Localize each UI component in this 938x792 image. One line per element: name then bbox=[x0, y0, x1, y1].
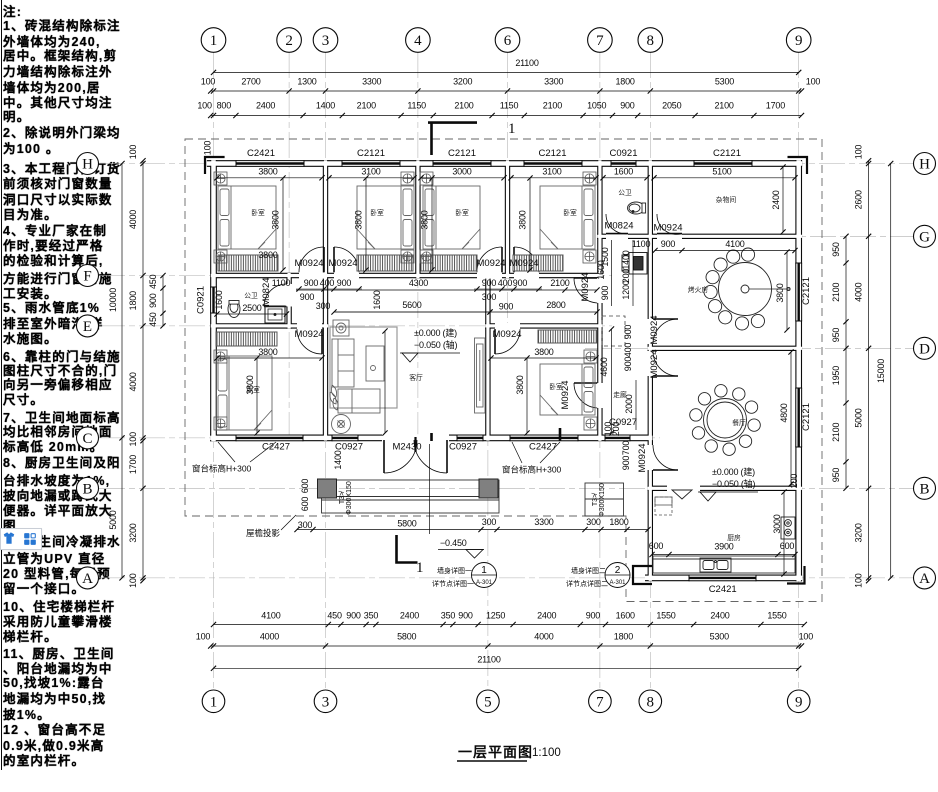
svg-text:3800: 3800 bbox=[775, 283, 785, 302]
svg-text:M2430: M2430 bbox=[392, 442, 421, 453]
svg-text:900: 900 bbox=[458, 611, 473, 621]
nightstand bedroom6 top bbox=[584, 350, 597, 363]
svg-text:3100: 3100 bbox=[361, 167, 380, 177]
living room chaise bed bbox=[338, 389, 380, 413]
wall axis 3 bbox=[323, 160, 328, 440]
svg-text:4000: 4000 bbox=[260, 632, 279, 642]
door opening M0924 bedroom1 bbox=[299, 272, 324, 278]
svg-text:墙身详图二: 墙身详图二 bbox=[571, 566, 606, 575]
svg-text:M0924: M0924 bbox=[294, 329, 323, 340]
svg-text:2700: 2700 bbox=[241, 77, 260, 87]
corridor west wall (axis 7) bbox=[597, 160, 602, 441]
svg-text:900: 900 bbox=[661, 239, 676, 249]
svg-text:100: 100 bbox=[196, 632, 211, 642]
grid bubble 1 bottom bbox=[202, 690, 225, 713]
grid bubble B left bbox=[77, 477, 99, 499]
grid bubble 9 bottom bbox=[787, 690, 810, 713]
svg-text:100: 100 bbox=[203, 141, 213, 156]
door opening M0824 bath2 bbox=[286, 284, 292, 307]
svg-text:3800: 3800 bbox=[258, 250, 277, 260]
grid bubble 9 top bbox=[786, 28, 811, 53]
svg-text:5000: 5000 bbox=[108, 510, 118, 529]
svg-text:C2421: C2421 bbox=[709, 584, 737, 595]
svg-text:卧室: 卧室 bbox=[370, 208, 384, 217]
svg-text:2400: 2400 bbox=[771, 190, 781, 209]
kitchen entry opening bbox=[667, 485, 700, 491]
wardrobe bedroom2 bbox=[357, 255, 413, 271]
svg-text:450: 450 bbox=[148, 312, 158, 327]
svg-text:3800: 3800 bbox=[518, 210, 528, 229]
grid bubble 1 top bbox=[201, 28, 226, 53]
svg-text:2600: 2600 bbox=[854, 190, 864, 209]
svg-text:10000: 10000 bbox=[108, 288, 118, 312]
grid bubble 3 bottom bbox=[314, 690, 337, 713]
right main dimension chain bbox=[854, 145, 872, 588]
svg-text:1550: 1550 bbox=[656, 611, 675, 621]
left sub-dimensions 450/900/450 bbox=[148, 273, 166, 329]
grid bubble 2 top bbox=[277, 28, 302, 53]
svg-text:1: 1 bbox=[481, 565, 487, 576]
svg-text:C2121: C2121 bbox=[801, 403, 812, 431]
door leaf+swing M0924 dining south bbox=[653, 469, 678, 471]
left main dimension chain bbox=[128, 145, 146, 588]
left overall dimensions bbox=[108, 161, 125, 581]
svg-text:窗台标高H+300: 窗台标高H+300 bbox=[192, 464, 252, 474]
door leaf+swing M0924 bedroom5 bbox=[321, 329, 323, 354]
window C2421 bedroom1 bbox=[236, 160, 304, 167]
svg-text:1150: 1150 bbox=[500, 101, 519, 111]
door leaf+swing M0924 bedroom3 bbox=[501, 247, 503, 272]
svg-text:1600: 1600 bbox=[372, 290, 382, 309]
dining round table with chairs bbox=[690, 385, 761, 456]
kitchen stove bbox=[781, 517, 795, 539]
svg-text:3800: 3800 bbox=[534, 347, 553, 357]
svg-text:A: A bbox=[919, 571, 930, 587]
section mark 1 top bbox=[428, 123, 477, 155]
corner pier top-right bbox=[788, 157, 808, 174]
svg-text:900: 900 bbox=[620, 101, 635, 111]
svg-text:M0924: M0924 bbox=[580, 272, 591, 301]
svg-text:1600: 1600 bbox=[616, 611, 635, 621]
door opening M0924 bedroom4 bbox=[514, 272, 539, 278]
svg-text:C0927: C0927 bbox=[449, 442, 477, 453]
svg-text:2000: 2000 bbox=[624, 394, 634, 413]
door leaf+swing M0924 bedroom4 bbox=[513, 247, 515, 272]
wall axis G (bottom of WC and storage) bbox=[597, 234, 802, 239]
main entrance double door M2430 bbox=[384, 437, 447, 473]
svg-text:客厅: 客厅 bbox=[409, 373, 423, 382]
svg-text:屋檐投影: 屋檐投影 bbox=[246, 528, 281, 538]
svg-text:2050: 2050 bbox=[662, 101, 681, 111]
svg-text:900: 900 bbox=[148, 293, 158, 308]
svg-text:1550: 1550 bbox=[767, 611, 786, 621]
svg-text:5800: 5800 bbox=[397, 632, 416, 642]
wall axis 5 (living/BR6 divider) bbox=[485, 273, 490, 441]
grid bubble G right bbox=[914, 225, 936, 247]
wall axis 4 (BR2/BR3 divider) bbox=[415, 160, 420, 278]
nightstand bedroom2 bottom bbox=[401, 250, 414, 263]
door opening M0824 WC bbox=[606, 233, 628, 239]
svg-text:200: 200 bbox=[611, 422, 621, 437]
svg-text:3800: 3800 bbox=[515, 375, 525, 394]
svg-text:M0924: M0924 bbox=[328, 258, 357, 269]
svg-text:1950: 1950 bbox=[831, 366, 841, 385]
svg-text:Φ300X150: Φ300X150 bbox=[346, 481, 353, 515]
svg-text:900: 900 bbox=[600, 286, 610, 301]
svg-text:1: 1 bbox=[508, 121, 516, 137]
svg-text:2: 2 bbox=[285, 33, 293, 49]
svg-text:M0924: M0924 bbox=[653, 223, 682, 234]
nightstand bedroom5 top bbox=[214, 350, 227, 363]
porch dimension line bbox=[297, 529, 648, 531]
svg-text:3800: 3800 bbox=[271, 210, 281, 229]
svg-text:2100: 2100 bbox=[714, 101, 733, 111]
window C2121 storage bbox=[694, 160, 752, 167]
svg-text:900: 900 bbox=[482, 278, 497, 288]
grid bubble D right bbox=[914, 337, 936, 359]
svg-text:700: 700 bbox=[621, 441, 631, 456]
window C2121 firehouse bbox=[795, 263, 802, 321]
door leaf+swing M0924 corridor bbox=[574, 277, 597, 279]
svg-text:公卫: 公卫 bbox=[244, 292, 258, 300]
wall detail reference 1 bbox=[472, 563, 497, 588]
wall axis F (bedroom south partition) bbox=[211, 273, 603, 278]
TV cabinet on axis5 wall bbox=[475, 338, 486, 413]
svg-text:1400: 1400 bbox=[316, 101, 335, 111]
svg-text:5100: 5100 bbox=[712, 167, 731, 177]
svg-text:H: H bbox=[919, 157, 930, 173]
wall axis 2 (bath partition) bbox=[286, 273, 291, 329]
svg-text:B: B bbox=[82, 481, 92, 497]
svg-text:21100: 21100 bbox=[477, 655, 501, 665]
kitchen sink bbox=[700, 558, 731, 572]
grid bubble H right bbox=[914, 153, 936, 175]
window C2121 bedroom3 bbox=[433, 160, 491, 167]
grid bubble E left bbox=[77, 315, 99, 337]
bottom axis spacing dimensions bbox=[196, 632, 813, 649]
kitchen entry step triangle bbox=[672, 490, 692, 499]
svg-text:M0924: M0924 bbox=[294, 258, 323, 269]
svg-text:M0924: M0924 bbox=[649, 315, 660, 344]
svg-text:900: 900 bbox=[623, 357, 633, 372]
svg-text:950: 950 bbox=[831, 468, 841, 483]
svg-text:350: 350 bbox=[364, 611, 379, 621]
kitchen bottom wall (axis A) bbox=[645, 575, 802, 582]
svg-text:4100: 4100 bbox=[261, 611, 280, 621]
door opening M0924 firehouse bbox=[647, 319, 653, 344]
door leaf+swing M0824 WC bbox=[606, 233, 628, 235]
svg-text:5300: 5300 bbox=[710, 632, 729, 642]
svg-text:C2121: C2121 bbox=[801, 277, 812, 305]
window C0921 WC bbox=[611, 160, 636, 167]
svg-text:900: 900 bbox=[621, 456, 631, 471]
svg-text:一层平面图: 一层平面图 bbox=[458, 744, 533, 760]
drawing title bbox=[457, 744, 561, 761]
svg-text:1500: 1500 bbox=[600, 247, 610, 266]
window C0927 living west bbox=[332, 435, 358, 442]
svg-text:900: 900 bbox=[586, 611, 601, 621]
nightstand bedroom3 bottom bbox=[420, 250, 433, 263]
interior room dimension lines bbox=[217, 167, 795, 574]
svg-text:600: 600 bbox=[780, 541, 795, 551]
svg-text:−0.450: −0.450 bbox=[440, 538, 467, 548]
svg-text:1800: 1800 bbox=[614, 632, 633, 642]
kitchen counter along bottom bbox=[653, 556, 795, 573]
svg-text:4000: 4000 bbox=[128, 210, 138, 229]
svg-text:1200: 1200 bbox=[621, 280, 631, 299]
svg-text:100: 100 bbox=[201, 77, 216, 87]
bed bedroom2 bbox=[357, 186, 414, 249]
svg-text:1700: 1700 bbox=[128, 455, 138, 474]
right overall dimension 15000 bbox=[876, 161, 893, 581]
left exterior wall (axis 1) bbox=[210, 160, 217, 441]
svg-text:300: 300 bbox=[298, 520, 313, 530]
grid bubble A right bbox=[914, 567, 936, 589]
svg-text:M0924: M0924 bbox=[509, 258, 538, 269]
living room coffee table bbox=[366, 346, 384, 381]
svg-text:1: 1 bbox=[210, 33, 218, 49]
window C0927 corridor bbox=[605, 435, 630, 442]
svg-text:1: 1 bbox=[210, 694, 218, 710]
washbasin bath2 bbox=[265, 306, 285, 323]
corner pier kitchen bottom-left bbox=[633, 566, 652, 584]
nightstand bedroom6 bottom bbox=[584, 417, 597, 430]
svg-text:100: 100 bbox=[197, 101, 212, 111]
svg-text:2400: 2400 bbox=[400, 611, 419, 621]
grid bubble 6 top bbox=[495, 28, 520, 53]
svg-text:C2121: C2121 bbox=[357, 148, 385, 159]
svg-text:8: 8 bbox=[647, 694, 655, 710]
svg-text:2100: 2100 bbox=[831, 423, 841, 442]
svg-text:900: 900 bbox=[513, 278, 528, 288]
right sub-dimensions bbox=[831, 234, 849, 491]
window C2121 bedroom2 bbox=[342, 160, 400, 167]
svg-text:4800: 4800 bbox=[779, 403, 789, 422]
svg-text:3800: 3800 bbox=[258, 167, 277, 177]
door leaf+swing M0824 bath2 bbox=[264, 306, 286, 308]
grid bubble C left bbox=[77, 427, 99, 449]
svg-text:3900: 3900 bbox=[714, 542, 733, 552]
svg-text:详节点详图二: 详节点详图二 bbox=[566, 579, 608, 588]
door opening M0924 bedroom6 bbox=[495, 323, 520, 329]
svg-text:C: C bbox=[82, 431, 92, 447]
svg-text:餐厅: 餐厅 bbox=[732, 418, 746, 427]
grid bubble A left bbox=[77, 567, 99, 589]
dashboard grid icon (blue) bbox=[23, 532, 37, 546]
wall axis E east segment bbox=[485, 323, 602, 328]
svg-text:8: 8 bbox=[647, 33, 655, 49]
window C2427 bedroom5 bbox=[236, 435, 303, 442]
svg-text:1150: 1150 bbox=[407, 101, 426, 111]
section mark 1 bottom bbox=[397, 535, 418, 563]
wall axis E west segment bbox=[211, 323, 328, 328]
window C2427 bedroom6 bbox=[510, 435, 578, 442]
svg-text:C2121: C2121 bbox=[539, 148, 567, 159]
svg-text:950: 950 bbox=[831, 328, 841, 343]
svg-text:600: 600 bbox=[300, 479, 310, 494]
wardrobe bedroom1 bbox=[218, 255, 278, 271]
svg-text:3800: 3800 bbox=[258, 347, 277, 357]
svg-text:3200: 3200 bbox=[453, 77, 472, 87]
overall bottom dimension 21100 bbox=[211, 655, 801, 671]
kitchen upper cabinet dashed bbox=[655, 497, 672, 515]
svg-text:3: 3 bbox=[322, 33, 330, 49]
svg-text:600: 600 bbox=[300, 497, 310, 512]
svg-text:C0921: C0921 bbox=[196, 286, 207, 314]
svg-text:200: 200 bbox=[789, 474, 799, 489]
svg-text:±0.000 (建): ±0.000 (建) bbox=[712, 466, 755, 477]
svg-text:400: 400 bbox=[498, 278, 513, 288]
interior dimension ticks bbox=[214, 175, 219, 180]
grid bubble 5 bottom bbox=[477, 690, 500, 713]
svg-text:400: 400 bbox=[320, 278, 335, 288]
svg-text:T3≯: T3≯ bbox=[338, 491, 346, 504]
svg-text:5: 5 bbox=[484, 694, 492, 710]
bed bedroom1 bbox=[218, 186, 276, 249]
door leaf+swing M0924 dining bbox=[653, 375, 678, 377]
svg-text:3300: 3300 bbox=[362, 77, 381, 87]
svg-text:杂物间: 杂物间 bbox=[716, 195, 737, 204]
svg-text:公卫: 公卫 bbox=[618, 189, 632, 197]
svg-text:450: 450 bbox=[327, 611, 342, 621]
door opening M0924 storage bbox=[657, 233, 682, 239]
svg-text:2400: 2400 bbox=[537, 611, 556, 621]
nightstand bedroom1 bottom bbox=[214, 250, 227, 263]
door leaf+swing M0924 bedroom1 bbox=[323, 247, 325, 272]
svg-text:1: 1 bbox=[416, 560, 424, 576]
svg-text:D: D bbox=[919, 341, 930, 357]
level marker living room bbox=[400, 327, 460, 362]
svg-text:300: 300 bbox=[316, 301, 331, 311]
door opening M0924 dining bbox=[647, 351, 653, 376]
svg-text:C2121: C2121 bbox=[448, 148, 476, 159]
svg-text:1400: 1400 bbox=[621, 250, 631, 269]
porch column on axis 3 bbox=[318, 479, 337, 498]
general notes text column bbox=[0, 0, 100, 792]
corner pier kitchen bottom-right bbox=[787, 566, 805, 584]
svg-text:卧室: 卧室 bbox=[563, 208, 577, 217]
svg-text:1800: 1800 bbox=[128, 291, 138, 310]
right exterior wall (axis 9) bbox=[795, 160, 802, 581]
living room corner plant table bbox=[333, 320, 349, 336]
svg-text:M0924: M0924 bbox=[476, 258, 505, 269]
svg-text:烤火房: 烤火房 bbox=[688, 285, 709, 294]
svg-text:5600: 5600 bbox=[402, 300, 421, 310]
svg-text:9: 9 bbox=[795, 33, 803, 49]
grid bubble F left bbox=[77, 265, 99, 287]
svg-text:C2427: C2427 bbox=[262, 442, 290, 453]
svg-text:5800: 5800 bbox=[397, 519, 416, 529]
svg-text:300: 300 bbox=[586, 517, 601, 527]
corridor dashed floor opening bbox=[602, 316, 625, 346]
svg-text:C2427: C2427 bbox=[529, 442, 557, 453]
svg-text:Φ300X150: Φ300X150 bbox=[599, 483, 606, 517]
svg-text:2400: 2400 bbox=[710, 611, 729, 621]
door opening corridor east bedroom6 bbox=[597, 383, 603, 408]
svg-text:7: 7 bbox=[596, 694, 604, 710]
svg-text:900: 900 bbox=[304, 278, 319, 288]
svg-text:C0921: C0921 bbox=[610, 148, 638, 159]
section line ticks bbox=[430, 433, 433, 441]
svg-text:F: F bbox=[83, 269, 91, 285]
svg-text:1600: 1600 bbox=[214, 290, 224, 309]
wall axis 8 (WC/storage divider and west wall of right rooms) bbox=[648, 160, 653, 581]
svg-text:1800: 1800 bbox=[609, 517, 628, 527]
svg-text:A-301: A-301 bbox=[609, 580, 626, 586]
bed bedroom5 bbox=[216, 356, 272, 430]
svg-text:400: 400 bbox=[623, 343, 633, 358]
svg-text:2100: 2100 bbox=[543, 101, 562, 111]
svg-text:1:100: 1:100 bbox=[532, 747, 561, 759]
nightstand bedroom5 bottom bbox=[214, 417, 227, 430]
svg-text:2: 2 bbox=[615, 565, 621, 576]
svg-text:1100: 1100 bbox=[632, 239, 651, 249]
svg-text:900: 900 bbox=[499, 302, 514, 312]
svg-text:1800: 1800 bbox=[615, 77, 634, 87]
svg-text:950: 950 bbox=[831, 242, 841, 257]
svg-text:21100: 21100 bbox=[515, 58, 539, 68]
wardrobe bedroom5 bbox=[216, 332, 277, 346]
wardrobe bedroom4 bbox=[513, 255, 563, 271]
svg-text:100: 100 bbox=[128, 145, 138, 160]
svg-text:1100: 1100 bbox=[272, 278, 291, 288]
svg-text:3800: 3800 bbox=[420, 210, 430, 229]
svg-text:900: 900 bbox=[346, 611, 361, 621]
svg-text:3: 3 bbox=[322, 694, 330, 710]
svg-text:M0924: M0924 bbox=[492, 329, 521, 340]
eave projection label bbox=[246, 515, 296, 538]
grid bubble 8 bottom bbox=[639, 690, 662, 713]
svg-text:15000: 15000 bbox=[876, 359, 886, 383]
building walls (double-line) bbox=[207, 160, 802, 581]
svg-text:G: G bbox=[919, 229, 930, 245]
svg-text:2100: 2100 bbox=[454, 101, 473, 111]
svg-text:7: 7 bbox=[596, 33, 604, 49]
svg-text:2400: 2400 bbox=[256, 101, 275, 111]
main entrance opening M2430 bbox=[382, 434, 449, 441]
svg-text:100: 100 bbox=[128, 432, 138, 447]
firehouse round table with chairs bbox=[704, 248, 790, 330]
sill height label right bbox=[500, 442, 576, 475]
svg-text:M0924: M0924 bbox=[637, 443, 648, 472]
svg-text:1050: 1050 bbox=[587, 101, 606, 111]
wardrobe bedroom3 bbox=[421, 255, 477, 271]
svg-text:2100: 2100 bbox=[550, 278, 569, 288]
svg-text:3100: 3100 bbox=[542, 167, 561, 177]
door leaf+swing M0924 bedroom6 bbox=[494, 329, 496, 354]
level marker porch bbox=[438, 538, 484, 558]
svg-text:900: 900 bbox=[623, 325, 633, 340]
door leaf+swing M0924 corridor-BR6 bbox=[574, 382, 597, 384]
svg-text:B: B bbox=[919, 481, 929, 497]
top exterior wall (axis H) bbox=[207, 160, 802, 167]
door opening corridor west bbox=[597, 278, 603, 303]
window C2421 kitchen bbox=[689, 575, 756, 582]
toilet WC bbox=[628, 202, 646, 214]
svg-text:墙身详图一: 墙身详图一 bbox=[437, 566, 472, 575]
bed bedroom3 bbox=[423, 186, 480, 249]
svg-text:350: 350 bbox=[441, 611, 456, 621]
svg-text:4100: 4100 bbox=[725, 239, 744, 249]
svg-text:M0924: M0924 bbox=[649, 349, 660, 378]
svg-text:100: 100 bbox=[128, 573, 138, 588]
living room sofa bbox=[332, 339, 354, 387]
living room rug outline bbox=[330, 327, 397, 408]
svg-text:4: 4 bbox=[414, 33, 422, 49]
door leaf+swing M0924 bedroom2 bbox=[333, 247, 335, 272]
grid bubble 3 top bbox=[313, 28, 338, 53]
svg-text:100: 100 bbox=[854, 145, 864, 160]
